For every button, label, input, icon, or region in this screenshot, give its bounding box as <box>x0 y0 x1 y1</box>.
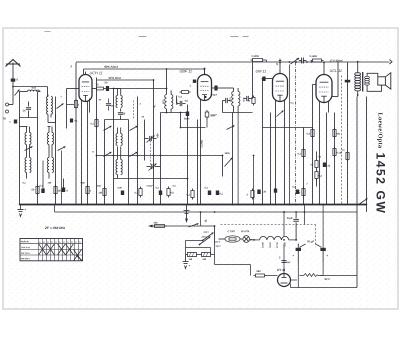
label t3 <box>60 97 62 99</box>
junction <box>137 204 139 206</box>
resistor R9 <box>306 128 314 139</box>
resistor R27 screen <box>67 99 81 110</box>
coil L2 <box>47 95 53 106</box>
rectifier UY11 U5 <box>277 268 291 287</box>
wire vertical x334 <box>334 113 336 205</box>
wire vertical x144 <box>144 120 146 161</box>
wire vertical x366 <box>366 97 368 213</box>
svg-text:560: 560 <box>256 270 261 273</box>
svg-text:4Ω: 4Ω <box>336 133 339 136</box>
junction <box>253 204 255 206</box>
resistor R4 <box>86 185 92 196</box>
wire y127 to pot <box>263 127 313 129</box>
wire vertical x37 <box>37 97 39 205</box>
junction <box>128 204 130 206</box>
resistor R26 <box>90 118 98 129</box>
wire y112b <box>223 112 253 114</box>
label 80% 22mA <box>104 65 118 69</box>
capacitor C10 <box>223 98 231 113</box>
label t15 <box>172 186 176 188</box>
resistor R7 0.1M top <box>251 55 265 62</box>
choke R25 <box>300 274 323 277</box>
ground bus <box>20 204 367 206</box>
wire y247 <box>186 245 215 255</box>
resistor R1 <box>31 185 39 196</box>
junction <box>87 204 89 206</box>
capacitor C19 <box>117 188 124 196</box>
svg-text:0,1MΩ: 0,1MΩ <box>251 55 258 58</box>
label 52% 4mA <box>108 76 120 80</box>
label t18 <box>22 183 26 185</box>
stray mark <box>139 36 147 38</box>
junction <box>192 204 194 206</box>
tube UBF11 U2 <box>179 70 211 101</box>
svg-text:Loewe/Opta: Loewe/Opta <box>376 113 383 149</box>
switch S12 <box>57 104 64 109</box>
svg-text:UM 11: UM 11 <box>255 70 266 74</box>
capacitor C13 <box>262 77 272 82</box>
wire y127 <box>180 113 206 129</box>
wire tube3 top <box>279 62 281 74</box>
wire tube4 anode <box>332 63 338 97</box>
svg-text:ZF = 468 kHz: ZF = 468 kHz <box>44 226 65 230</box>
svg-text:KW 19-51: KW 19-51 <box>21 253 30 255</box>
heater return dashed <box>221 225 316 247</box>
label t2 <box>139 104 141 106</box>
band switch S2 <box>58 146 66 150</box>
resistor R6 0.3M <box>178 91 190 99</box>
label t13 <box>306 184 308 186</box>
wire y178 <box>114 178 188 180</box>
label 0.1M <box>202 140 204 148</box>
svg-text:110 V: 110 V <box>215 246 221 248</box>
junction <box>237 204 239 206</box>
wire vertical x104 <box>104 120 106 205</box>
output transformer T3 secondary <box>365 76 370 85</box>
capacitor C31 5uF <box>279 256 291 264</box>
resistor R15 <box>297 187 305 198</box>
gang link 2 <box>133 101 135 119</box>
wire vertical x160 <box>160 113 162 205</box>
resistor R29 <box>341 150 349 162</box>
wire x262 <box>262 78 264 205</box>
chassis ground <box>184 205 190 224</box>
brand Loewe/Opta <box>376 113 383 149</box>
svg-text:220 V: 220 V <box>203 232 209 234</box>
station table frame <box>20 239 83 261</box>
junction <box>42 204 44 206</box>
resistor R11 <box>297 148 305 159</box>
gang link <box>150 141 152 169</box>
switch S6 <box>130 152 138 157</box>
wire return y211 <box>55 205 358 213</box>
mains switch S10 <box>189 223 199 227</box>
capacitor C2 50pF <box>104 81 113 92</box>
capacitor C18 <box>292 187 299 195</box>
junction <box>96 204 98 206</box>
wire screen rail <box>84 68 206 75</box>
coil L6 <box>25 127 31 145</box>
junction dots mid <box>96 79 224 179</box>
junction <box>262 204 264 206</box>
station table crosses <box>39 244 83 261</box>
wire vertical x356 <box>356 97 358 288</box>
resistor R12 <box>333 147 342 158</box>
gang link 3 <box>341 76 343 205</box>
station table grid <box>20 239 83 261</box>
junction <box>104 204 106 206</box>
svg-text:80% 22mA: 80% 22mA <box>104 65 118 69</box>
resistor R8 0.1M top <box>309 55 323 62</box>
label t19 <box>47 183 51 185</box>
svg-text:Wellenb.: Wellenb. <box>21 241 30 243</box>
ground symbol <box>18 205 27 217</box>
svg-text:50 V/TA: 50 V/TA <box>241 231 250 233</box>
wire bottom <box>291 263 358 288</box>
wire vertical x128 <box>128 120 130 205</box>
wire vertical x87 <box>87 102 89 205</box>
resistor R23 <box>199 253 213 262</box>
capacitor C11 <box>244 89 253 102</box>
wire y264 <box>215 255 251 276</box>
selector arrows <box>199 233 214 246</box>
wire tube2 top lead <box>204 69 206 75</box>
resistor R13 <box>310 152 318 170</box>
wire selector <box>186 241 203 248</box>
antenna coupling capacitor <box>11 78 19 87</box>
electrolytic C22 <box>292 244 301 263</box>
svg-text:MW 200-5: MW 200-5 <box>21 258 30 260</box>
grid cap mark <box>276 59 281 66</box>
label 51 <box>71 64 73 67</box>
junction <box>295 61 312 63</box>
junction <box>334 204 336 206</box>
model 1452 GW <box>374 153 388 215</box>
junction <box>197 204 199 206</box>
capacitor C21 5uF <box>287 211 299 240</box>
svg-text:70 μF: 70 μF <box>307 240 314 244</box>
resistor R10 <box>333 128 340 139</box>
band switch S1 <box>25 146 33 150</box>
svg-text:UCL11: UCL11 <box>276 242 278 248</box>
junction <box>113 204 115 206</box>
label t5 <box>141 117 144 119</box>
wire <box>20 117 38 119</box>
capacitor C7 5000 <box>184 105 190 121</box>
switch S4 <box>130 126 138 131</box>
coil L8 <box>48 127 54 145</box>
coil L7 <box>25 145 31 179</box>
antenna switch <box>13 87 20 96</box>
junction <box>55 204 57 206</box>
junction <box>37 204 39 206</box>
wire tube4 top <box>323 62 325 72</box>
label t4 <box>31 88 36 90</box>
label IF2 <box>229 98 245 103</box>
junction <box>366 204 368 206</box>
resistor R21 heater <box>153 222 167 228</box>
wire vertical x66 <box>62 89 67 205</box>
resistor R18 <box>134 187 142 198</box>
junction <box>217 204 219 206</box>
label 464 <box>156 134 159 139</box>
switch S11 <box>277 111 284 117</box>
wire TA <box>9 96 14 105</box>
wire IF1 top <box>114 89 167 91</box>
wire vertical x137 <box>137 97 139 205</box>
svg-text:1M: 1M <box>98 192 101 195</box>
svg-text:5 μF: 5 μF <box>287 216 293 220</box>
capacitor C14 <box>323 163 331 168</box>
capacitor C15 <box>204 187 211 196</box>
svg-text:50Ω: 50Ω <box>80 183 84 185</box>
capacitor C17 <box>257 190 266 195</box>
label t12 <box>296 59 299 61</box>
capacitor C3 25pF <box>118 109 126 120</box>
resistor R14 <box>315 170 323 187</box>
svg-text:1MΩ: 1MΩ <box>96 186 101 188</box>
capacitor 14pF <box>22 102 31 118</box>
wire vertical x303 <box>303 128 305 205</box>
wire vertical x295 <box>295 63 297 205</box>
capacitor C12 top <box>299 58 308 64</box>
svg-text:420: 420 <box>153 222 158 225</box>
label t6 <box>92 152 94 154</box>
tube4 legs <box>320 102 329 205</box>
resistor R24 560 <box>254 270 267 277</box>
IF transformer T1 <box>165 91 173 113</box>
wire vertical x326 <box>326 113 328 205</box>
label t8 <box>210 95 217 97</box>
label IF1 <box>162 100 178 106</box>
resistor R20 <box>167 187 175 198</box>
wire x325 <box>321 263 324 276</box>
trimmer C5 <box>147 164 161 171</box>
junction <box>258 204 260 206</box>
coil L14 <box>116 147 122 179</box>
wire vertical x47 <box>47 87 49 97</box>
wire x197 <box>197 120 199 205</box>
wire vertical x55 <box>55 97 57 205</box>
junction <box>322 204 324 206</box>
svg-text:C 1307: C 1307 <box>227 231 235 233</box>
wire x253 <box>253 155 255 205</box>
label t7 <box>189 85 191 88</box>
stray mark <box>45 32 249 37</box>
switch S7 top <box>265 58 300 64</box>
coil L3 <box>47 106 53 115</box>
wire x200 drop <box>200 211 202 226</box>
junction <box>275 204 277 206</box>
switch S3 <box>104 126 112 131</box>
ground mains <box>183 255 191 269</box>
wire vertical x312 <box>312 128 314 205</box>
svg-text:UCH11: UCH11 <box>268 242 270 248</box>
tube UM11 U3 <box>255 70 287 102</box>
wire grid rail y79 <box>97 80 154 113</box>
capacitor C26 <box>106 99 115 111</box>
capacitor C25 <box>345 80 351 83</box>
wire vertical x96 <box>96 78 98 205</box>
svg-text:0,25μF: 0,25μF <box>146 186 153 188</box>
label 5af <box>204 219 207 223</box>
svg-text:0,1M: 0,1M <box>336 152 341 155</box>
wire tube2 top <box>204 68 206 72</box>
label t14 <box>318 157 321 159</box>
label t20 <box>80 183 84 185</box>
wire speaker bottom <box>367 85 381 91</box>
svg-text:TA: TA <box>2 117 6 121</box>
svg-text:125 V: 125 V <box>215 242 221 244</box>
tube UCL11 U4 <box>316 69 342 103</box>
junction <box>295 204 297 206</box>
wire vertical x19 <box>19 97 21 205</box>
junction <box>81 204 83 206</box>
capacitor C30 <box>274 189 277 193</box>
label t11 <box>290 103 294 105</box>
IF transformer T2 <box>232 88 240 113</box>
wire IF2 top <box>222 87 234 89</box>
junction <box>19 204 21 206</box>
wire vertical x154 <box>153 113 155 205</box>
label 70uF <box>300 240 322 248</box>
speaker LS <box>378 73 391 89</box>
svg-text:5μF: 5μF <box>286 262 291 264</box>
wire x270 <box>270 113 272 205</box>
capacitor C16 <box>216 191 224 196</box>
wire x187 <box>187 116 189 205</box>
tube1 legs <box>82 99 90 205</box>
wire antenna to input <box>12 86 47 88</box>
capacitor C20 <box>155 187 162 196</box>
label t1 <box>98 100 101 102</box>
svg-text:UBF 11: UBF 11 <box>179 70 192 74</box>
switch S8 <box>227 125 235 129</box>
wire x238 <box>237 113 239 205</box>
svg-text:TKW 6-19: TKW 6-19 <box>21 247 30 249</box>
capacitor C1 <box>39 161 44 194</box>
wire x283 down <box>283 211 285 273</box>
TA sockets <box>2 103 8 121</box>
svg-text:1452 GW: 1452 GW <box>374 153 388 215</box>
junction <box>187 204 189 206</box>
svg-text:150: 150 <box>57 190 62 193</box>
junction <box>75 204 77 206</box>
wire vertical x75 <box>75 63 77 205</box>
svg-text:UBF11: UBF11 <box>261 242 263 248</box>
label V <box>153 105 156 109</box>
svg-text:17 V 42mA: 17 V 42mA <box>329 59 342 63</box>
wire IF1 feed <box>166 68 168 90</box>
svg-text:90 V: 90 V <box>324 277 330 281</box>
svg-text:ʒ∣: ʒ∣ <box>204 219 207 223</box>
junction <box>61 204 63 206</box>
junction <box>209 204 211 206</box>
output transformer T3 primary <box>355 61 361 97</box>
junction <box>312 204 314 206</box>
heater labels <box>261 242 285 248</box>
wire x304 <box>304 205 306 225</box>
junction <box>270 204 272 206</box>
wire UY11 <box>267 276 298 281</box>
wire mains y225 <box>149 225 216 245</box>
capacitor C28 <box>193 80 196 83</box>
wire x252 <box>252 63 254 89</box>
junction <box>356 204 358 206</box>
resistor R16 <box>186 189 194 200</box>
tube UCH11 U1 <box>79 71 103 101</box>
transformer core <box>362 72 364 92</box>
wire y112 <box>161 112 188 114</box>
switch S5 <box>104 152 112 157</box>
junction <box>326 204 328 206</box>
coil L1 antenna <box>20 90 41 97</box>
resistor R5 70 <box>92 83 106 90</box>
junction <box>304 204 306 206</box>
rail end hook <box>390 60 393 65</box>
svg-text:5000: 5000 <box>184 118 190 121</box>
junction <box>160 204 162 206</box>
capacitor C6 4.5pF <box>177 96 189 107</box>
svg-text:1MΩ: 1MΩ <box>224 153 229 155</box>
resistor R30 <box>247 96 255 106</box>
wire speaker top <box>367 73 378 77</box>
coil L12 <box>116 128 122 146</box>
antenna <box>6 60 21 79</box>
resistor R2 <box>54 185 62 196</box>
electrolytic C23 <box>320 205 328 263</box>
wire top rail <box>76 61 390 63</box>
tube2 legs <box>201 96 208 205</box>
junction <box>168 204 170 206</box>
wire <box>48 114 56 122</box>
capacitor C29 <box>9 120 17 124</box>
tube3 legs <box>276 101 285 205</box>
resistor R22 <box>186 253 200 262</box>
svg-text:0,05μF: 0,05μF <box>210 95 217 97</box>
label 17V 42mA <box>329 59 342 63</box>
wire tube1 grid <box>67 88 80 90</box>
selector taps <box>201 232 221 248</box>
fuse F1 <box>219 236 243 242</box>
svg-text:UCL 11: UCL 11 <box>329 69 342 73</box>
label t17 <box>96 186 101 188</box>
resistor R28 <box>205 110 217 119</box>
junction <box>232 204 234 206</box>
heater chain <box>250 236 297 240</box>
junction <box>319 204 321 206</box>
label fuse <box>227 231 249 233</box>
junction <box>200 204 202 206</box>
svg-text:0,1MΩ: 0,1MΩ <box>309 55 316 58</box>
svg-text:UCH 11: UCH 11 <box>89 71 102 75</box>
dial lamp LA1 <box>243 236 253 243</box>
wire AVC y155 <box>97 155 223 157</box>
resistor R17 <box>246 189 254 200</box>
label 90V <box>324 277 330 281</box>
wire x289 <box>289 61 291 204</box>
label t9 <box>210 116 215 118</box>
mains switch S9 <box>359 199 368 205</box>
trimmer C4 <box>145 136 157 143</box>
capacitor C24 <box>62 179 69 193</box>
wire y275 to rail <box>323 275 357 277</box>
resistor R19 <box>98 187 106 198</box>
wire y119 <box>105 119 129 121</box>
svg-text:52% 4mA: 52% 4mA <box>108 76 120 80</box>
capacitor C27 <box>70 119 78 123</box>
wire grid UCL11 <box>313 85 317 128</box>
